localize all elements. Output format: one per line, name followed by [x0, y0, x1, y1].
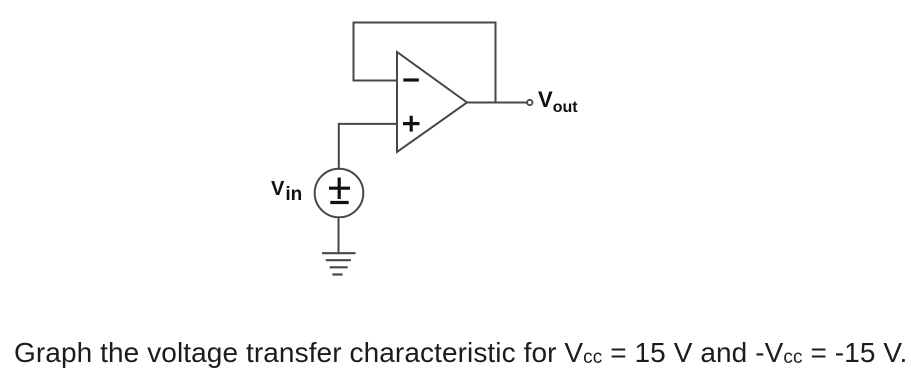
wire feedback top	[354, 22, 496, 24]
voltage source Vin	[315, 169, 364, 218]
op-amp U1	[397, 52, 467, 152]
label Vout	[538, 87, 578, 117]
wire non-inverting input	[339, 123, 397, 125]
wire source top	[338, 123, 340, 169]
wire source bottom	[338, 217, 340, 253]
wire inverting input	[353, 80, 398, 82]
wire feedback right vertical	[495, 22, 497, 103]
op-amp non-inverting input plus	[403, 116, 420, 132]
ground	[322, 253, 356, 274]
wire feedback left vertical	[353, 22, 355, 81]
label Vin	[271, 178, 302, 206]
source plus-minus symbol	[329, 178, 350, 203]
caption text	[14, 337, 907, 369]
wire output	[467, 102, 527, 104]
node Vout terminal	[527, 100, 532, 105]
op-amp inverting input minus	[403, 78, 419, 81]
